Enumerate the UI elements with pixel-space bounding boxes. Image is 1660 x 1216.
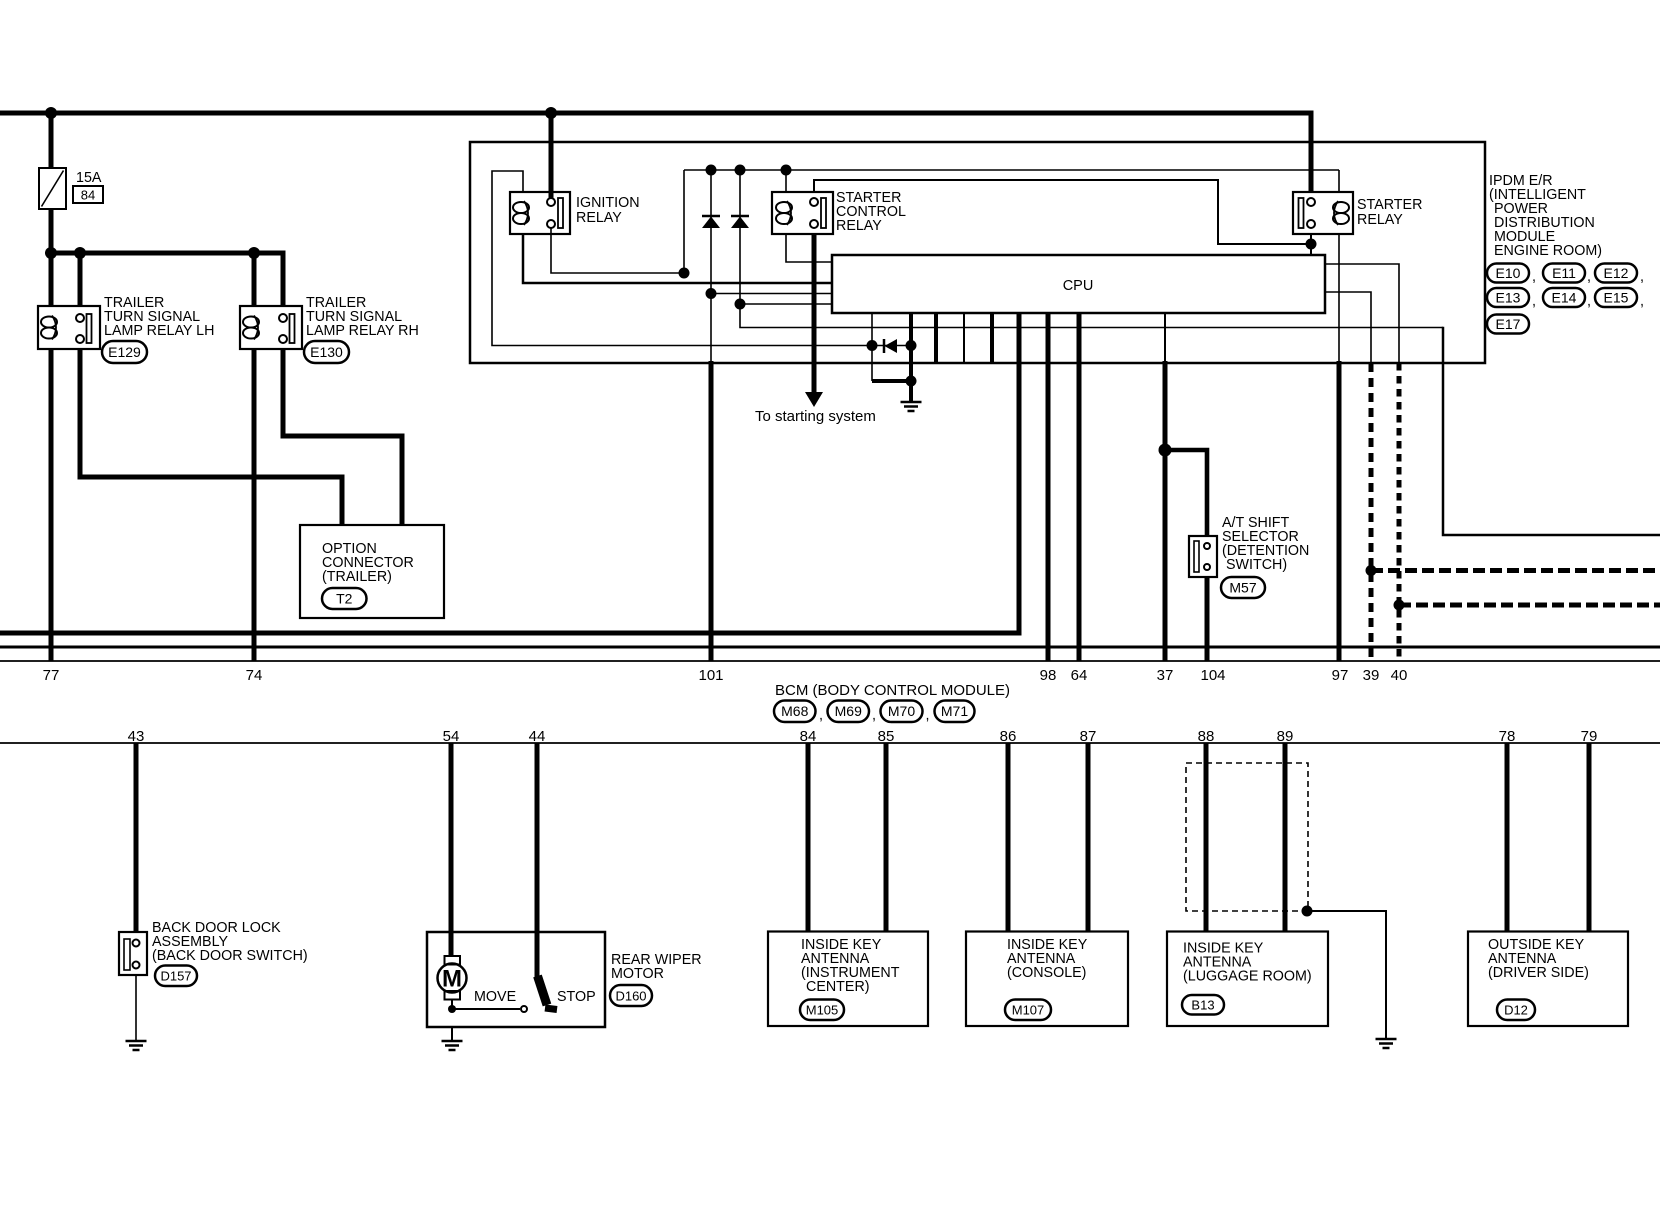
contact circles ignition relay [547,198,555,206]
inside key antenna instrument center box [768,932,928,1027]
svg-text:RELAY: RELAY [1357,212,1403,228]
node shield 40 [1394,600,1405,611]
wire RH coil to BCM pin 74 [252,349,257,661]
ignition relay box [510,192,570,234]
wire riser to top rail [683,170,685,273]
svg-text:E11: E11 [1552,265,1576,281]
motor terminal bottom [445,991,461,1000]
connector M71 [935,701,975,723]
switch D157 back door box [119,932,147,975]
connector E15 [1595,288,1637,307]
wire top rail to starter relay coil [684,169,1339,171]
svg-text:LAMP RELAY RH: LAMP RELAY RH [306,323,419,339]
BCM bottom edge [0,742,1660,744]
svg-text:,: , [926,708,930,724]
wire diode 1 to CPU [711,293,831,295]
wire BCM pin 85 [884,743,889,932]
svg-text:M68: M68 [781,703,808,719]
wire LH relay contact feed [78,253,83,306]
ground back door switch [126,1040,147,1043]
svg-text:M57: M57 [1229,579,1256,595]
svg-text:D12: D12 [1504,1003,1528,1018]
svg-text:E130: E130 [310,344,343,360]
svg-text:(TRAILER): (TRAILER) [322,569,392,585]
label fuse number 84 [73,186,103,203]
contact bar starter control relay [821,198,826,228]
node A/T branch [1159,444,1172,457]
ground wiper motor [442,1040,463,1043]
wire shield pin 39 dashed [1369,363,1374,661]
svg-text:M107: M107 [1012,1003,1045,1018]
svg-text:RELAY: RELAY [576,210,622,226]
wire ignition coil bottom to CPU [523,234,831,283]
svg-text:37: 37 [1157,667,1174,684]
wire BCM pin 79 [1587,743,1592,932]
wire LH contact to option connector [80,349,342,525]
connector M70 [881,701,923,723]
svg-text:87: 87 [1080,728,1097,745]
wire diode 3 link [871,345,911,347]
wire diode 2 to right corner [740,304,1443,328]
svg-text:E10: E10 [1496,265,1521,281]
CPU box [832,255,1325,313]
contact circles starter control relay [810,198,818,206]
wire starter control contact to starting system [812,234,817,393]
wire BCM pin 86 [1006,743,1011,932]
svg-text:BCM (BODY CONTROL MODULE): BCM (BODY CONTROL MODULE) [775,682,1010,699]
wire motor to ground [451,1027,453,1041]
wire CPU to BCM pin 64 [1077,313,1082,661]
switch circles [1204,543,1210,549]
svg-text:E12: E12 [1604,265,1629,281]
svg-text:D160: D160 [615,988,646,1003]
connector E13 [1487,288,1529,307]
connector E129 [102,341,147,363]
inside key antenna console box [966,932,1128,1027]
wire BCM pin 78 [1505,743,1510,932]
node move contact [448,1005,456,1013]
node diode 3 cathode [906,340,917,351]
svg-text:E14: E14 [1552,289,1577,305]
contact circles relay LH [76,314,84,322]
wire CPU right to pin 39 column [1325,292,1371,363]
wire starter relay coil to BCM pin 97 [1337,361,1342,661]
ground IPDM internal [901,401,922,404]
svg-text:MOVE: MOVE [474,989,516,1005]
svg-text:40: 40 [1391,667,1408,684]
wire motor to move contact [451,1000,453,1013]
node diode 3 anode [867,340,878,351]
relay E129 trailer turn signal lamp relay LH [38,306,100,349]
svg-text:98: 98 [1040,667,1057,684]
move contact open circle [521,1006,527,1012]
svg-text:MOTOR: MOTOR [611,966,664,982]
svg-text:E17: E17 [1496,316,1521,332]
svg-text:86: 86 [1000,728,1017,745]
wire rail to starter relay coil [1338,170,1340,192]
svg-text:T2: T2 [336,590,353,606]
connector B13 [1182,995,1224,1015]
wire IPDM pin to BCM pin 101 [709,361,714,661]
wire corner to right edge [1443,327,1660,535]
inside key antenna luggage room box [1167,932,1328,1027]
wire BCM pin 87 [1086,743,1091,932]
wire shield 39 horizontal dashed [1371,568,1660,573]
wire CPU to horizontal BCM bus [0,313,1019,633]
relay E130 trailer turn signal lamp relay RH [240,306,302,349]
wire move contact arm [452,1008,520,1010]
wire CPU stub pin 37 [1164,313,1166,363]
svg-text:(BACK DOOR SWITCH): (BACK DOOR SWITCH) [152,948,308,964]
connector D157 [155,966,197,987]
wire relay feed bus [51,253,283,306]
connector M57 [1221,577,1265,598]
node diode 2 CPU branch [735,299,746,310]
svg-text:78: 78 [1499,728,1516,745]
wire branch to detention switch [1165,450,1207,536]
svg-text:77: 77 [43,667,60,684]
connector E17 [1487,315,1529,334]
wire BCM pin 44 to stop lever [535,743,540,978]
node shield ground junction [1302,906,1313,917]
svg-text:(CONSOLE): (CONSOLE) [1007,965,1086,981]
arrow to starting system [805,392,823,407]
svg-text:43: 43 [128,728,145,745]
svg-text:SWITCH): SWITCH) [1226,557,1287,573]
svg-text:101: 101 [698,667,723,684]
stop switch lever [538,976,548,1005]
connector E12 [1595,264,1637,283]
svg-text:CENTER): CENTER) [806,979,870,995]
contact bar ignition relay [558,198,563,228]
wire fuse to relay feed [49,209,54,255]
svg-text:B13: B13 [1191,998,1214,1013]
wire starter relay coil to IPDM edge [1338,234,1340,363]
svg-text:M70: M70 [888,703,915,719]
wire BCM pin 54 to wiper motor [449,743,454,956]
starter control relay box [772,192,833,234]
connector M69 [828,701,870,723]
svg-text:STOP: STOP [557,989,596,1005]
connector E14 [1543,288,1585,307]
wire RH contact to option connector [283,349,402,525]
fuse 15A [39,168,66,209]
svg-text:E129: E129 [108,344,141,360]
BCM top edge [0,660,1660,662]
node feed LH contact branch [74,247,86,259]
node feed RH coil branch [248,247,260,259]
wire diode 1 column [710,170,712,294]
wire bus to fuse [49,110,54,168]
wire CPU right to pin 40 column [1325,264,1399,363]
wire ignition contact to riser [551,227,684,273]
rear wiper motor box [427,932,605,1027]
svg-text:74: 74 [246,667,263,684]
svg-text:84: 84 [81,188,95,203]
wire cathode to ground [909,346,913,403]
switch circles back door [133,940,140,947]
switch bar back door [124,939,130,970]
motor M circle [438,964,467,993]
svg-text:97: 97 [1332,667,1349,684]
svg-text:E15: E15 [1604,289,1629,305]
wire BCM pin 84 [806,743,811,932]
wire starter control coil to CPU [786,234,831,262]
wire diode 1 column to IPDM edge [710,294,712,364]
wire diode 2 column [739,170,741,304]
svg-text:RELAY: RELAY [836,218,882,234]
wire diode ground link [872,379,911,383]
wire shield 40 horizontal dashed [1399,603,1660,608]
svg-text:89: 89 [1277,728,1294,745]
svg-text:IGNITION: IGNITION [576,195,640,211]
connector M68 [774,701,816,723]
svg-text:M: M [442,966,462,993]
connector M107 [1005,1000,1051,1021]
contact bar relay LH [87,314,92,343]
svg-text:M69: M69 [835,703,862,719]
node feed at fuse column [45,247,57,259]
wire shield pin 40 dashed [1397,363,1402,661]
svg-text:M71: M71 [941,703,968,719]
svg-text:To starting system: To starting system [755,408,876,425]
svg-text:(DRIVER SIDE): (DRIVER SIDE) [1488,965,1589,981]
node starter relay contact junction [1306,239,1317,250]
wire CPU stub c [963,313,965,363]
diode D1 [702,215,720,218]
wire switch to BCM pin 104 [1205,577,1210,661]
svg-text:,: , [1640,269,1644,285]
shield dashed box luggage antenna [1186,763,1308,911]
switch M57 detention box [1189,536,1217,577]
node bus-fuse junction [45,107,57,119]
wire starter control contact to starter relay node [814,180,1311,244]
svg-text:88: 88 [1198,728,1215,745]
connector E130 [304,341,349,363]
starter relay box [1293,192,1353,234]
node diode 1 top [706,165,717,176]
wire ignition coil top loop to diode rail [492,171,868,346]
wire BCM pin 89 [1283,743,1288,932]
contact circles starter relay [1307,198,1315,206]
connector D12 [1497,1000,1535,1021]
wire LH coil to BCM pin 77 [49,349,54,661]
wire RH relay coil feed [252,253,257,306]
connector E11 [1543,264,1585,283]
svg-text:,: , [1532,294,1536,310]
contact bar relay RH [290,314,295,343]
wire CPU stub d [990,313,994,363]
svg-text:84: 84 [800,728,817,745]
wire BCM pin 37 [1163,361,1168,661]
node diode 1 CPU branch [706,288,717,299]
node riser junction [679,268,690,279]
wire starter control coil feed [785,170,787,192]
wire LH relay coil feed [49,253,54,306]
svg-text:,: , [872,708,876,724]
svg-text:44: 44 [529,728,546,745]
svg-text:79: 79 [1581,728,1598,745]
svg-text:,: , [1532,269,1536,285]
wire switch to ground [135,975,137,1041]
svg-text:,: , [1587,269,1591,285]
wire CPU stub ground thick [909,313,913,346]
svg-text:LAMP RELAY LH: LAMP RELAY LH [104,323,214,339]
svg-text:(LUGGAGE ROOM): (LUGGAGE ROOM) [1183,969,1312,985]
wire bus to ignition relay contact [549,113,554,199]
svg-text:54: 54 [443,728,460,745]
connector E10 [1487,264,1529,283]
node shield 39 [1366,565,1377,576]
ground luggage antenna shield [1376,1038,1397,1041]
wire starter relay contact to CPU [1310,234,1312,255]
connector M105 [800,1000,844,1021]
node starter control coil branch [781,165,792,176]
svg-text:E13: E13 [1496,289,1521,305]
svg-text:,: , [1640,294,1644,310]
wire diode 3 anode down [871,346,873,382]
outside key antenna driver side box [1468,932,1628,1027]
diode D2 [731,215,749,218]
wire horizontal bus 2 [0,646,1660,649]
wire diode 2 to CPU [740,303,831,305]
option connector T2 box [300,525,444,618]
wire CPU stub a [871,313,873,346]
wire main power bus [0,113,1311,192]
IPDM E/R module box [470,142,1485,363]
svg-text:15A: 15A [76,170,102,186]
wire BCM pin 43 to back door switch [134,743,139,932]
svg-text:64: 64 [1071,667,1088,684]
connector D160 [610,985,652,1006]
svg-text:M105: M105 [806,1003,839,1018]
switch bar [1194,541,1199,572]
node ground junction [906,376,917,387]
svg-text:85: 85 [878,728,895,745]
contact bar starter relay [1299,198,1304,228]
contact circles relay RH [279,314,287,322]
svg-text:104: 104 [1200,667,1225,684]
svg-text:STARTER: STARTER [1357,197,1422,213]
wire shield to ground [1307,911,1386,1039]
node diode 2 top [735,165,746,176]
diode D3 [883,339,886,353]
wire CPU stub b [934,313,938,363]
motor terminal top [445,956,461,965]
svg-text:D157: D157 [160,969,191,984]
svg-text:CPU: CPU [1063,278,1094,294]
wire BCM pin 88 [1204,743,1209,932]
svg-text:,: , [1587,294,1591,310]
wire CPU to BCM pin 98 [1046,313,1051,661]
svg-text:,: , [819,708,823,724]
node bus-ignition junction [545,107,557,119]
svg-text:ENGINE ROOM): ENGINE ROOM) [1494,243,1602,259]
svg-text:39: 39 [1363,667,1380,684]
connector T2 [322,588,367,609]
